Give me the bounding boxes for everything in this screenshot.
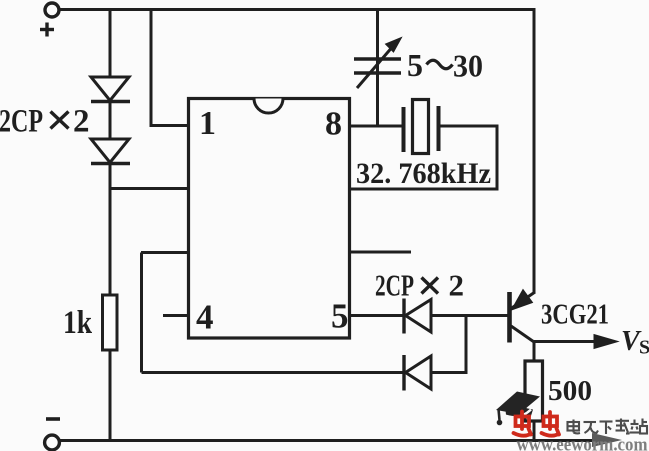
diode D2 2CP — [91, 139, 130, 164]
svg-text:3CG21: 3CG21 — [541, 299, 609, 331]
label VS — [621, 326, 649, 359]
wire crystal right + box — [350, 126, 497, 189]
wire between diodes — [109, 101, 112, 140]
wire vdd drop to pin1 — [151, 10, 189, 126]
transistor Q1 collector — [511, 326, 536, 343]
wire bottom rail — [59, 439, 600, 442]
crystal Y1 32.768kHz — [404, 100, 439, 154]
svg-text:500: 500 — [548, 375, 592, 407]
wire pin7 stub — [350, 251, 411, 254]
wire right rail — [533, 8, 536, 293]
svg-text:5: 5 — [407, 47, 423, 83]
watermark dianzi xiazaizhan gray characters — [568, 419, 648, 435]
wire diode branch drop — [109, 10, 112, 79]
transistor Q1 emitter — [511, 290, 535, 311]
label + — [40, 23, 54, 37]
wire diodes to resistor — [109, 163, 112, 296]
svg-text:1k: 1k — [63, 305, 93, 341]
wire feedback vertical — [140, 253, 143, 373]
label minus — [46, 417, 60, 421]
wire feedback top — [141, 251, 188, 254]
wire feedback bottom — [142, 371, 405, 374]
wire pin4 stub — [163, 314, 189, 317]
svg-text:1: 1 — [199, 105, 216, 142]
watermark arrow — [592, 433, 622, 447]
svg-text:30: 30 — [453, 48, 483, 84]
resistor R2 500 — [525, 361, 543, 421]
diode D1 2CP — [91, 77, 130, 102]
svg-text:S: S — [639, 337, 649, 359]
svg-text:8: 8 — [325, 106, 342, 143]
IC U1 — [189, 99, 350, 339]
wire resistor to bottom rail — [533, 421, 536, 441]
svg-text:2CP: 2CP — [0, 104, 43, 140]
resistor R1 1k — [103, 295, 118, 350]
watermark chongchong red characters — [514, 412, 560, 436]
terminal minus — [45, 435, 60, 450]
svg-text:4: 4 — [196, 298, 214, 337]
wire D4 to corner — [430, 317, 466, 373]
wire resistor to bottom rail — [109, 350, 112, 441]
wire junction to IC left — [110, 187, 189, 190]
wire collector to resistor — [533, 342, 536, 363]
svg-text:2: 2 — [449, 268, 465, 303]
label 2CP x2 right — [375, 268, 464, 303]
watermark graduation cap — [496, 392, 540, 426]
svg-text:32. 768kHz: 32. 768kHz — [356, 157, 491, 190]
wire D3 to base — [430, 314, 508, 317]
capacitor C1 arrow — [357, 38, 402, 89]
wire pin8 — [350, 125, 403, 128]
svg-text:www.eeworm.com: www.eeworm.com — [517, 436, 649, 451]
svg-text:2: 2 — [73, 104, 90, 140]
transistor Q1 base bar — [507, 292, 512, 343]
svg-text:5: 5 — [331, 297, 349, 336]
wire top rail — [59, 8, 536, 11]
svg-text:2CP: 2CP — [375, 268, 414, 303]
diode D3 2CP upper — [404, 299, 431, 334]
wire pin5 to D3 — [350, 314, 404, 317]
capacitor C1 variable top lead — [376, 10, 379, 128]
capacitor C1 plates — [354, 59, 401, 73]
diode D4 2CP lower — [404, 355, 431, 391]
label 2CP x2 left — [0, 104, 90, 140]
terminal plus — [45, 3, 59, 17]
label 5~30 — [407, 47, 483, 84]
wire output with arrow — [534, 335, 618, 349]
